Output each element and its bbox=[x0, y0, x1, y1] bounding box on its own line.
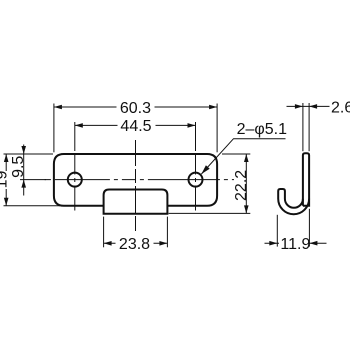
svg-text:44.5: 44.5 bbox=[120, 118, 151, 135]
svg-text:2.6: 2.6 bbox=[331, 99, 350, 116]
svg-text:19: 19 bbox=[0, 171, 11, 189]
svg-text:9.5: 9.5 bbox=[10, 156, 27, 178]
svg-text:11.9: 11.9 bbox=[280, 236, 310, 253]
svg-text:2–φ5.1: 2–φ5.1 bbox=[237, 121, 288, 138]
svg-text:23.8: 23.8 bbox=[119, 236, 150, 253]
svg-text:22.2: 22.2 bbox=[233, 170, 250, 201]
svg-text:60.3: 60.3 bbox=[120, 100, 151, 117]
